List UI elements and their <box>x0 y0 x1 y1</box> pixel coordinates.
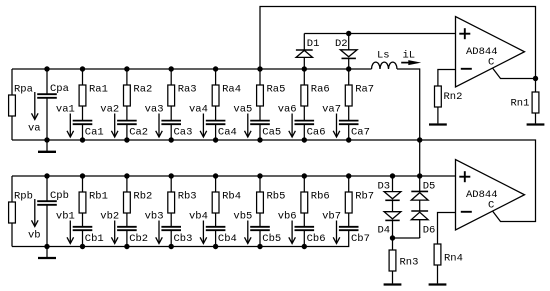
node Cpa top <box>44 66 49 71</box>
resistor Rb3 <box>168 176 197 227</box>
svg-text:Ca5: Ca5 <box>262 127 281 139</box>
svg-text:Ca3: Ca3 <box>174 127 193 139</box>
op-amp U2 AD844 <box>456 160 525 231</box>
svg-text:Ra1: Ra1 <box>89 84 108 96</box>
capacitor Cb4 <box>206 227 237 247</box>
svg-text:D5: D5 <box>423 181 436 193</box>
resistor Ra6 <box>301 69 330 121</box>
svg-text:vb6: vb6 <box>278 211 297 223</box>
svg-text:Rn1: Rn1 <box>511 98 530 110</box>
node Cb3 bottom <box>169 244 174 249</box>
svg-text:vb7: vb7 <box>322 211 341 223</box>
svg-text:Ca6: Ca6 <box>307 127 326 139</box>
diode D4 <box>378 200 401 238</box>
capacitor Ca5 <box>250 121 281 140</box>
node va3 (voltage arrow) <box>145 104 164 138</box>
node Ra3 top <box>169 66 174 71</box>
capacitor Ca7 <box>339 121 370 140</box>
resistor Rb6 <box>301 176 330 227</box>
svg-text:va7: va7 <box>322 104 341 116</box>
svg-text:Cb2: Cb2 <box>129 233 148 245</box>
svg-text:vb5: vb5 <box>233 211 252 223</box>
svg-text:Cb4: Cb4 <box>218 233 237 245</box>
node Cb2 bottom <box>124 244 129 249</box>
svg-text:va6: va6 <box>278 104 297 116</box>
diode D6 <box>411 200 435 238</box>
capacitor Cpa <box>37 69 69 140</box>
node D2 top <box>346 31 351 36</box>
capacitor Cb2 <box>117 227 148 247</box>
node Rb5 top <box>257 173 262 178</box>
svg-text:vb3: vb3 <box>145 211 164 223</box>
node Ra2 top <box>124 66 129 71</box>
node Ra7 top <box>346 66 351 71</box>
ground <box>429 123 447 124</box>
node Ca3 bottom <box>169 137 174 142</box>
svg-text:Ca4: Ca4 <box>218 127 237 139</box>
svg-text:Ra2: Ra2 <box>133 84 152 96</box>
node Ca5 bottom <box>257 137 262 142</box>
wire B bottom rail <box>12 230 349 246</box>
wire D1/D2 top to U1 + input <box>304 33 455 35</box>
node diode bottom junction <box>390 235 395 240</box>
resistor Rb4 <box>212 176 241 227</box>
node Cb6 bottom <box>302 244 307 249</box>
node Cb5 bottom <box>257 244 262 249</box>
node va2 (voltage arrow) <box>100 104 119 138</box>
svg-text:Rb4: Rb4 <box>222 191 241 203</box>
wire A top rail <box>12 68 372 70</box>
svg-text:Cb3: Cb3 <box>174 233 193 245</box>
svg-text:Rb2: Rb2 <box>133 191 152 203</box>
diode D3 <box>378 176 401 200</box>
node vb3 (voltage arrow) <box>145 211 164 244</box>
svg-text:Rb5: Rb5 <box>267 191 286 203</box>
wire B top rail <box>12 175 456 177</box>
node Ca2 bottom <box>124 137 129 142</box>
svg-text:C: C <box>488 57 494 69</box>
capacitor Cb5 <box>250 227 281 247</box>
svg-text:C: C <box>488 200 494 212</box>
node vb5 (voltage arrow) <box>233 211 252 244</box>
capacitor Ca4 <box>206 121 237 140</box>
diode D5 <box>411 176 435 200</box>
node Ca1 bottom <box>80 137 85 142</box>
svg-text:Cb7: Cb7 <box>351 233 370 245</box>
node va6 (voltage arrow) <box>278 104 297 138</box>
svg-text:vb1: vb1 <box>56 211 75 223</box>
wire Ls output to junction <box>397 68 420 176</box>
node D3 top <box>390 173 395 178</box>
svg-text:va2: va2 <box>100 104 119 116</box>
node junction iL / A bottom rail <box>417 137 422 142</box>
node Rb6 top <box>302 173 307 178</box>
ground <box>527 123 545 124</box>
node Ca7 bottom <box>346 137 351 142</box>
node U1 C output <box>533 76 538 81</box>
capacitor Ca2 <box>117 121 148 140</box>
node va (voltage arrow) <box>28 92 41 135</box>
node vb (voltage arrow) <box>28 199 41 242</box>
resistor Rpb <box>9 176 33 247</box>
node Ca4 bottom <box>213 137 218 142</box>
node Cb1 bottom <box>80 244 85 249</box>
svg-text:Cb6: Cb6 <box>307 233 326 245</box>
svg-text:Ls: Ls <box>377 50 390 62</box>
svg-text:Ra3: Ra3 <box>178 84 197 96</box>
node vb7 (voltage arrow) <box>322 211 341 244</box>
capacitor Cb7 <box>339 227 370 245</box>
node Rb1 top <box>80 173 85 178</box>
svg-text:vb: vb <box>28 230 41 242</box>
svg-text:va: va <box>28 123 41 135</box>
capacitor Cpb <box>37 176 69 247</box>
node va4 (voltage arrow) <box>189 104 208 138</box>
node Rb4 top <box>213 173 218 178</box>
svg-text:D2: D2 <box>335 38 348 50</box>
capacitor Ca1 <box>73 121 104 140</box>
capacitor Ca3 <box>161 121 192 140</box>
node D5 top <box>417 173 422 178</box>
node Cpa bottom <box>44 137 49 142</box>
resistor Rn2 <box>435 70 463 124</box>
svg-text:Rb3: Rb3 <box>178 191 197 203</box>
svg-text:D1: D1 <box>307 38 320 50</box>
node Cpb top <box>44 173 49 178</box>
svg-text:Rb1: Rb1 <box>89 191 108 203</box>
svg-text:Rpa: Rpa <box>14 84 33 96</box>
svg-text:Rn4: Rn4 <box>444 253 463 265</box>
resistor Rn1 <box>511 79 539 124</box>
wire A bottom rail / feedback to U2 C pin <box>12 140 536 222</box>
svg-text:D4: D4 <box>378 225 391 237</box>
ground <box>38 140 56 152</box>
capacitor Cb3 <box>161 227 192 247</box>
diode D1 <box>296 34 320 70</box>
ground <box>38 247 56 259</box>
svg-text:vb4: vb4 <box>189 211 208 223</box>
node Cb4 bottom <box>213 244 218 249</box>
node Cpb bottom <box>44 244 49 249</box>
node Rb3 top <box>169 173 174 178</box>
svg-text:Rb6: Rb6 <box>311 191 330 203</box>
svg-text:Ra7: Ra7 <box>355 84 374 96</box>
svg-text:Ra5: Ra5 <box>267 84 286 96</box>
resistor Ra5 <box>257 69 286 121</box>
resistor Ra4 <box>212 69 241 121</box>
resistor Rb7 <box>345 176 374 227</box>
resistor Ra2 <box>124 69 153 121</box>
ground <box>384 283 402 284</box>
svg-text:Cb1: Cb1 <box>85 233 104 245</box>
resistor Ra3 <box>168 69 197 121</box>
svg-text:Cb5: Cb5 <box>262 233 281 245</box>
node Ra5 top <box>257 66 262 71</box>
node va7 (voltage arrow) <box>322 104 341 138</box>
resistor Rn4 <box>434 213 463 284</box>
op-amp U1 AD844 <box>456 17 525 88</box>
svg-text:Rn2: Rn2 <box>444 91 463 103</box>
node vb6 (voltage arrow) <box>278 211 297 244</box>
svg-text:va5: va5 <box>233 104 252 116</box>
svg-text:Cpa: Cpa <box>50 83 69 95</box>
current arrow iL <box>401 50 421 66</box>
svg-text:va4: va4 <box>189 104 208 116</box>
node Ra4 top <box>213 66 218 71</box>
node vb1 (voltage arrow) <box>56 211 75 244</box>
node Ra1 top <box>80 66 85 71</box>
svg-text:D3: D3 <box>378 181 391 193</box>
resistor Rpa <box>9 69 33 140</box>
svg-text:Rpb: Rpb <box>14 191 33 203</box>
capacitor Cb1 <box>73 227 104 247</box>
resistor Rb5 <box>257 176 286 227</box>
svg-text:Ca7: Ca7 <box>351 127 370 139</box>
node va5 (voltage arrow) <box>233 104 252 138</box>
svg-text:Ca2: Ca2 <box>129 127 148 139</box>
node Ca6 bottom <box>302 137 307 142</box>
svg-text:Ra4: Ra4 <box>222 84 241 96</box>
resistor Rn3 <box>389 238 418 283</box>
node vb4 (voltage arrow) <box>189 211 208 244</box>
svg-text:Ra6: Ra6 <box>311 84 330 96</box>
resistor Ra7 <box>345 69 374 121</box>
ground <box>429 283 447 284</box>
svg-text:Rb7: Rb7 <box>355 191 374 203</box>
wire U1 C pin <box>493 68 536 79</box>
node vb2 (voltage arrow) <box>100 211 119 244</box>
wire feedback from node va5 to U1 C node <box>260 7 536 79</box>
svg-text:D6: D6 <box>423 225 436 237</box>
node Rb7 top <box>346 173 351 178</box>
capacitor Cb6 <box>295 227 326 247</box>
resistor Ra1 <box>79 69 108 121</box>
capacitor Ca6 <box>295 121 326 140</box>
diode D2 <box>335 34 357 70</box>
svg-text:Cpb: Cpb <box>50 190 69 202</box>
wire diode chains bottom <box>393 237 420 238</box>
svg-text:Rn3: Rn3 <box>400 257 419 269</box>
svg-text:vb2: vb2 <box>100 211 119 223</box>
node va1 (voltage arrow) <box>56 104 75 138</box>
resistor Rb2 <box>124 176 153 227</box>
svg-text:iL: iL <box>403 50 416 62</box>
resistor Rb1 <box>79 176 108 227</box>
svg-text:va3: va3 <box>145 104 164 116</box>
svg-text:Ca1: Ca1 <box>85 127 104 139</box>
node Ra6 top <box>302 66 307 71</box>
svg-text:va1: va1 <box>56 104 75 116</box>
node Rb2 top <box>124 173 129 178</box>
inductor Ls <box>372 50 398 70</box>
